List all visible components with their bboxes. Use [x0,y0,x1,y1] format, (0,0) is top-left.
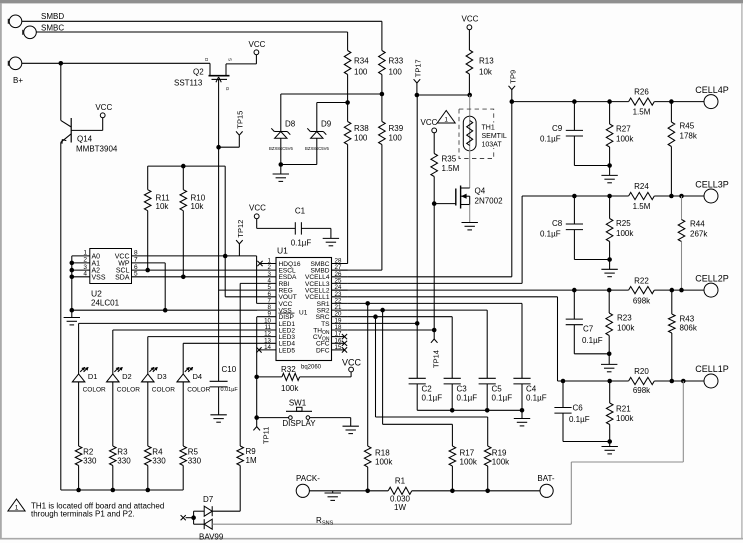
note text [31,502,164,519]
ground at C10 [210,387,226,422]
ground at R23 C7 [601,354,617,372]
resistor R27 [606,102,634,168]
resistor R10 [180,190,206,211]
svg-text:0.1µF: 0.1µF [526,394,547,403]
svg-text:R9: R9 [246,447,257,456]
svg-text:TP11: TP11 [262,427,271,444]
wire SR1 to R18 [367,303,369,446]
wire DISP net [254,317,259,418]
svg-text:C2: C2 [422,385,433,394]
svg-text:1.5M: 1.5M [633,202,651,211]
svg-text:R18: R18 [375,449,390,458]
svg-text:C5: C5 [492,385,503,394]
capacitor C6 [554,381,609,442]
svg-text:SW1: SW1 [289,399,307,408]
ground at R27 C9 [601,166,617,183]
svg-text:SST113: SST113 [174,79,203,88]
power VCC at R13 [462,15,479,30]
svg-text:SDA: SDA [115,274,130,281]
warning triangle 1 at note [8,499,25,512]
svg-text:100k: 100k [492,458,510,467]
svg-text:COLOR: COLOR [152,387,175,394]
svg-text:0.1µF: 0.1µF [582,336,603,345]
wire Q2 gate to REG and C10 [218,147,220,381]
svg-text:CELL1P: CELL1P [695,364,729,374]
svg-text:R21: R21 [616,405,631,414]
svg-text:R24: R24 [634,182,649,191]
svg-text:100k: 100k [616,414,634,423]
testpoint TP11 [253,418,270,444]
svg-text:0.1µF: 0.1µF [457,394,478,403]
svg-text:R43: R43 [680,315,695,324]
diode D8 [269,120,296,151]
resistor R34 [344,51,369,77]
svg-text:15: 15 [335,344,342,351]
capacitor C5 [479,378,513,410]
svg-text:BAT-: BAT- [537,474,555,483]
connector CELL1P [695,364,729,388]
wire SMBC riser [347,32,349,51]
wire VCELL1 net [348,297,558,381]
wire SW1 to ground [310,418,351,427]
wire SMBD rail [22,20,382,22]
wire PACK- row [309,489,388,494]
svg-text:1: 1 [83,250,87,257]
wire LED2 row [113,330,257,374]
svg-text:R1: R1 [395,477,406,486]
resistor R24 [629,182,655,211]
svg-text:0.1µF: 0.1µF [422,394,443,403]
svg-text:5: 5 [134,271,138,278]
resistor R22 [629,277,655,306]
svg-text:100k: 100k [460,458,478,467]
wire TS net [348,95,420,378]
svg-text:C6: C6 [573,404,584,413]
thermistor TH1 [459,95,511,159]
svg-text:100: 100 [354,134,368,143]
ground at Q4 [462,205,478,230]
resistor R19 [484,446,510,491]
wire REG row [219,289,257,291]
svg-text:806k: 806k [680,324,698,333]
svg-text:0.1µF: 0.1µF [540,230,561,239]
wire LED3 row [148,337,257,374]
svg-text:VCC: VCC [421,118,438,127]
LED D3 [142,367,176,394]
resistor R32 [257,365,351,393]
wire TS sense segment [415,93,472,98]
svg-text:R39: R39 [389,124,404,133]
svg-text:CELL4P: CELL4P [695,85,729,95]
wire VCC rail above R11 R10 [148,164,226,190]
resistor R1 [388,477,412,513]
svg-text:TS: TS [321,321,330,328]
wire SR2 net [348,308,488,378]
wire Q14 emitter to LED rail [60,142,62,490]
ground at filter caps [514,410,530,426]
svg-text:VCC: VCC [95,103,112,112]
svg-text:B+: B+ [13,76,23,85]
svg-text:24LC01: 24LC01 [91,299,120,308]
svg-text:COLOR: COLOR [83,387,106,394]
wire RSNS sense path [212,381,683,524]
testpoint TP12 [236,220,245,256]
label RSNS [316,516,334,527]
testpoint TP9 [508,70,517,102]
svg-text:VCC: VCC [249,204,266,213]
svg-text:1: 1 [444,117,448,124]
power VCC at Q2 [249,40,266,55]
resistor R23 [606,290,635,356]
svg-text:C7: C7 [583,325,594,334]
wire LED4 row [183,343,257,374]
svg-text:10k: 10k [191,202,205,211]
svg-text:C8: C8 [552,219,563,228]
connector CELL2P [695,274,729,298]
svg-text:CELL3P: CELL3P [695,180,729,190]
svg-text:WP: WP [118,261,130,268]
svg-text:100k: 100k [616,135,634,144]
svg-text:U2: U2 [91,289,102,299]
wire SMBC rail [37,31,348,33]
wire R39 to pin27 SMBD [332,145,382,271]
svg-text:R22: R22 [634,277,649,286]
wire D2 to R3 [112,382,114,446]
svg-text:C9: C9 [552,124,563,133]
svg-text:1W: 1W [394,503,406,512]
resistor R18 [364,446,393,491]
svg-text:COLOR: COLOR [117,387,140,394]
wire zener ground net [279,138,317,167]
power VCC at Q14 [95,103,112,118]
svg-text:100: 100 [354,68,368,77]
wire D9 to SMBC junction [317,103,348,132]
wire TH1 to Q4 drain [469,150,471,188]
transistor Q2 [174,55,256,148]
power VCC at C1 [249,204,266,219]
testpoint TP17 [414,59,423,95]
svg-text:R32: R32 [281,365,296,374]
svg-text:R35: R35 [442,155,457,164]
svg-text:PACK-: PACK- [296,474,320,483]
svg-text:R25: R25 [616,219,631,228]
svg-text:R2: R2 [83,448,94,457]
svg-text:A1: A1 [92,261,101,268]
svg-text:R44: R44 [690,220,705,229]
svg-text:SMBC: SMBC [41,24,64,33]
svg-text:VCC: VCC [249,40,266,49]
svg-text:TP9: TP9 [508,70,517,84]
capacitor C8 [540,196,610,260]
svg-text:SEMTIL: SEMTIL [482,133,507,140]
svg-text:MMBT3904: MMBT3904 [76,144,118,153]
connector B+ [8,57,23,85]
svg-text:DFC: DFC [316,347,330,354]
resistor R9 [237,446,257,466]
wire B+ rail [22,61,210,66]
resistor R2 [75,446,97,490]
wire VCC column to VOUT [223,166,257,297]
svg-text:R27: R27 [616,125,631,134]
svg-text:Q2: Q2 [193,68,204,77]
svg-text:330: 330 [83,457,97,466]
wire filter cap ground rail [417,408,524,413]
capacitor C10 [210,365,239,393]
svg-text:10k: 10k [479,68,493,77]
svg-text:0.1µF: 0.1µF [540,134,561,143]
testpoint TP15 [216,111,244,150]
wire THON net R35 to pin18 [432,204,437,333]
svg-text:A0: A0 [92,254,101,261]
wire R10 to ESDA [182,211,184,277]
resistor R43 [669,290,698,381]
ground at U2 [64,310,80,325]
svg-text:0.1µF: 0.1µF [569,415,590,424]
wire SRC to R19 [376,317,488,446]
svg-text:8: 8 [134,250,138,257]
diode D9 [305,120,332,151]
resistor R11 [144,190,170,211]
svg-text:0.1µF: 0.1µF [492,394,513,403]
wire THON row [348,329,435,331]
svg-text:100k: 100k [616,229,634,238]
resistor R26 [629,88,655,117]
testpoint TP14 [431,330,441,368]
svg-text:R17: R17 [460,449,475,458]
svg-text:178k: 178k [680,132,698,141]
wire R1 to BAT- [412,489,540,494]
warning triangle 1 at TH1 [437,111,455,124]
svg-text:TP12: TP12 [236,220,245,238]
svg-text:U1: U1 [277,246,288,256]
svg-text:SNS: SNS [322,520,334,526]
svg-text:1.5M: 1.5M [442,164,460,173]
svg-text:TP15: TP15 [236,111,245,129]
svg-text:S: S [228,58,233,61]
ground at C1 [323,228,339,245]
transistor Q14 [61,63,118,153]
capacitor C1 [257,207,331,248]
svg-text:267k: 267k [690,230,708,239]
ground at R25 C8 [601,260,617,277]
svg-text:100: 100 [389,134,403,143]
LED D4 [177,367,211,394]
IC U2 24LC01 [72,249,148,308]
resistor R25 [606,196,634,262]
connector PACK- [296,474,320,497]
wire SRC net [348,314,453,378]
svg-text:0.01µF: 0.01µF [221,387,239,393]
power VCC at R32 [342,357,362,372]
connector CELL3P [695,180,729,204]
svg-text:G: G [225,87,230,91]
svg-text:330: 330 [117,457,131,466]
ground at SW1 [343,426,359,433]
wire D8 to SMBD junction [281,94,382,132]
svg-text:698k: 698k [633,386,651,395]
svg-text:0.1µF: 0.1µF [291,239,312,248]
svg-text:R5: R5 [188,448,199,457]
svg-text:R45: R45 [680,122,695,131]
svg-text:Q14: Q14 [77,135,93,144]
svg-text:D8: D8 [285,120,296,129]
LED D1 [72,367,106,394]
svg-text:VCC: VCC [342,357,362,367]
wire SMBD riser [381,21,383,50]
wire LED1 row [79,323,257,374]
wire VCELL3 net [348,196,522,283]
capacitor C7 [566,290,610,354]
wire LED cathode rail [61,488,183,493]
svg-text:100k: 100k [375,458,393,467]
svg-text:10k: 10k [156,202,170,211]
IC U1 bq2060 [256,246,347,371]
wire CELL3P row [522,194,704,199]
resistor R44 [678,196,708,290]
capacitor C2 [409,378,443,410]
svg-text:D3: D3 [157,372,167,381]
svg-text:TP14: TP14 [432,350,441,368]
wire R11 to ESCL [147,211,149,270]
svg-text:VSS: VSS [92,274,106,281]
wire U2 VCC row to U1 pin7 [148,256,257,304]
svg-text:VCC: VCC [115,254,130,261]
connector CELL4P [695,85,729,109]
svg-text:DISPLAY: DISPLAY [282,419,316,428]
svg-text:1.5M: 1.5M [633,108,651,117]
svg-text:C3: C3 [457,385,468,394]
svg-text:1M: 1M [246,456,257,465]
wire ESCL net [145,268,257,273]
resistor R35 [431,133,460,204]
svg-text:1: 1 [15,505,19,512]
wire RBI to R9 and TP12b [240,283,257,446]
resistor R20 [629,367,655,395]
wire D4 to R5 [182,382,184,446]
svg-text:100k: 100k [281,384,299,393]
svg-text:698k: 698k [633,297,651,306]
wire ESDA net [148,275,257,280]
diode D7 [181,495,224,542]
resistor R3 [110,446,132,490]
svg-text:D7: D7 [203,495,214,504]
wire CELL1P row [558,379,705,384]
svg-text:BAV99: BAV99 [199,533,224,542]
svg-text:TH1: TH1 [482,125,495,132]
svg-text:100k: 100k [617,324,635,333]
svg-text:Q4: Q4 [475,187,486,196]
LED D2 [107,367,141,394]
wire R9 to D7 [212,466,240,512]
svg-text:VCC: VCC [462,15,479,24]
svg-text:SMBD: SMBD [41,12,64,21]
resistor R4 [145,446,167,490]
wire SR1 net [348,301,522,378]
ground at D8 D9 [273,165,289,182]
capacitor C3 [444,378,478,410]
svg-text:C10: C10 [222,365,237,374]
svg-text:7: 7 [134,257,138,264]
svg-text:R34: R34 [354,57,369,66]
wire R34-R38 junction [345,75,350,122]
ground at R21 C6 [602,442,618,454]
svg-text:LED5: LED5 [279,347,296,354]
wire U2 WP to VSS rail [148,263,166,310]
svg-text:R20: R20 [634,367,649,376]
wire VSS rail U2 to U1 pin8 [72,308,257,313]
capacitor C9 [540,102,610,166]
svg-text:D1: D1 [88,372,98,381]
connector SMBD [8,12,64,28]
ground at PACK- [325,491,341,501]
resistor R39 [379,122,404,145]
wire U2 address pins to ground [70,256,75,313]
svg-text:TP17: TP17 [414,59,423,77]
wire D1 to R2 [78,382,80,446]
switch SW1 [254,399,316,428]
resistor R13 [466,30,494,95]
connector BAT- [537,474,555,497]
resistor R5 [180,446,202,490]
svg-text:R3: R3 [117,448,128,457]
svg-text:2N7002: 2N7002 [475,197,504,206]
svg-text:2: 2 [83,257,87,264]
svg-text:14: 14 [264,344,271,351]
svg-text:R33: R33 [389,57,404,66]
svg-text:103AT: 103AT [482,142,503,149]
wire R38 to pin28 SMBC [332,145,348,264]
svg-text:330: 330 [152,457,166,466]
wire VCELL4 net [348,102,512,277]
capacitor C4 [513,378,546,410]
transistor Q4 [432,186,503,209]
svg-text:R38: R38 [354,124,369,133]
wire CELL4P row [510,99,705,104]
svg-text:D9: D9 [321,120,332,129]
wire SR2 to R17 [383,310,453,446]
svg-text:C1: C1 [295,207,306,216]
resistor R38 [344,122,369,145]
svg-text:R13: R13 [479,57,494,66]
resistor R21 [606,381,634,444]
svg-text:4: 4 [83,271,87,278]
svg-text:R4: R4 [152,448,163,457]
resistor R45 [668,102,698,196]
svg-text:through terminals P1 and P2.: through terminals P1 and P2. [31,510,135,519]
wire R33-R39 junction [380,75,385,122]
svg-text:C4: C4 [526,385,537,394]
svg-text:R19: R19 [492,449,507,458]
svg-text:100: 100 [389,68,403,77]
connector SMBC [23,24,65,39]
resistor R17 [449,446,478,491]
resistor R33 [379,51,404,77]
svg-text:D4: D4 [193,372,203,381]
svg-text:R26: R26 [634,88,649,97]
svg-text:bq2060: bq2060 [301,365,322,371]
wire D3 to R4 [147,382,149,446]
svg-text:COLOR: COLOR [187,387,210,394]
svg-text:D2: D2 [122,372,132,381]
wire CELL2P row [332,288,705,293]
svg-text:CELL2P: CELL2P [695,274,729,284]
power VCC at R35 [421,118,438,133]
svg-text:U1: U1 [299,310,308,317]
svg-text:R23: R23 [617,314,632,323]
svg-text:330: 330 [188,457,202,466]
